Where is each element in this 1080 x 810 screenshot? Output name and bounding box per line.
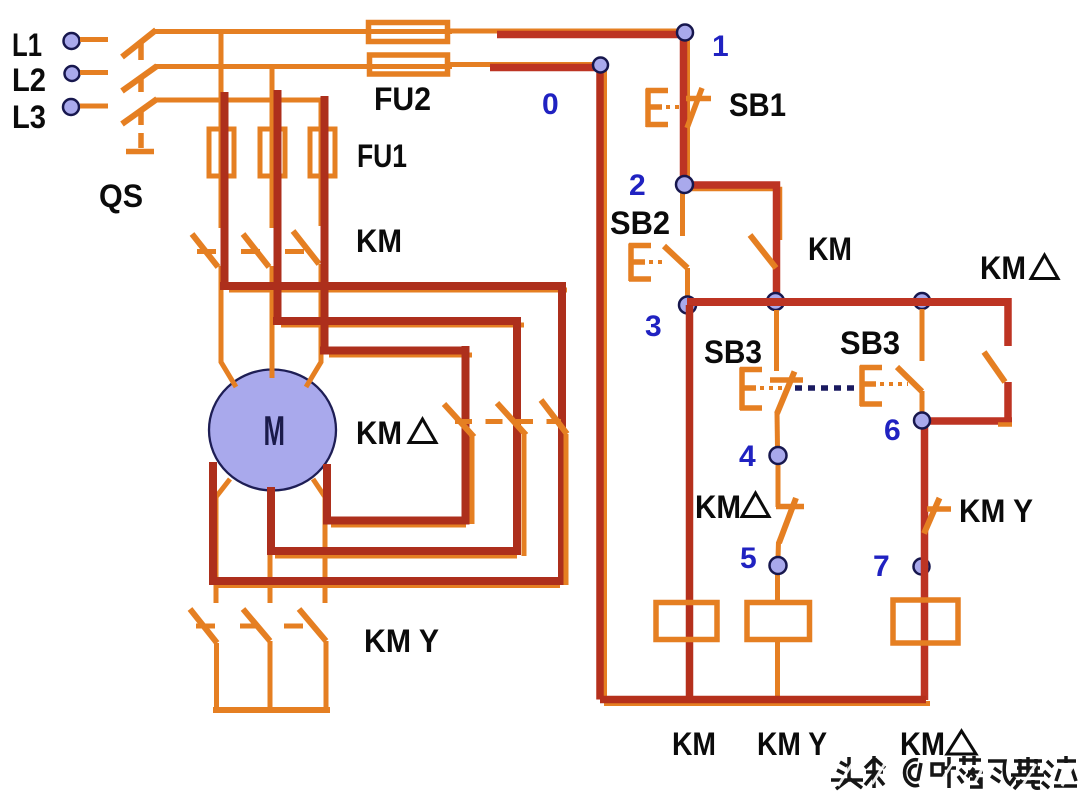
svg-text:1: 1: [712, 30, 729, 63]
contactor KM main dashed link: [197, 249, 318, 254]
fuse FU1 phase2: [260, 129, 285, 176]
svg-text:SB2: SB2: [610, 205, 670, 241]
wire bus 302 dark red: [687, 298, 1008, 306]
svg-text:2: 2: [629, 169, 646, 202]
svg-text:FU2: FU2: [374, 81, 431, 117]
wire KM coil drop dark red: [686, 305, 694, 700]
contactor KM-delta blade 2: [497, 403, 526, 435]
node 1: [677, 25, 693, 41]
fuse FU1 phase3: [310, 129, 335, 176]
node SB3 right junction: [914, 293, 930, 309]
coil KM-delta box: [893, 600, 958, 643]
node 7: [914, 559, 930, 575]
button SB3 left blade: [777, 372, 795, 414]
wire bottom bus dark red: [600, 696, 926, 704]
button SB3 right dots: [880, 382, 908, 386]
contactor KM-delta blade 3: [541, 400, 567, 434]
wire motor bottom 2 orange: [268, 492, 273, 711]
svg-text:6: 6: [884, 414, 901, 447]
coil KM-Y box: [747, 603, 810, 640]
watermark toutiao: [831, 756, 1077, 789]
delta highlight path phase3 dark red: [320, 96, 470, 525]
contactor KM-Y NC bar: [927, 506, 951, 512]
wire phase1 drop: [221, 32, 236, 388]
wire KM-Y coil stub: [775, 573, 780, 600]
wire phase1 horizontal: [154, 31, 688, 185]
wire node2 branch orange under: [687, 189, 780, 240]
svg-text:KM: KM: [808, 231, 852, 267]
button SB3 left stub: [774, 310, 779, 371]
wire phase3 horizontal: [155, 98, 324, 103]
svg-text:SB3: SB3: [840, 325, 900, 361]
svg-text:L3: L3: [12, 99, 46, 135]
svg-text:KM Y: KM Y: [364, 623, 439, 659]
switch QS blade 3: [122, 99, 157, 124]
contactor KM main blade 1: [192, 234, 218, 267]
svg-text:5: 5: [740, 542, 757, 575]
wire node1 to node2 dark red: [680, 34, 688, 184]
node 2: [676, 176, 693, 193]
node 4: [770, 447, 787, 464]
svg-text:L1: L1: [12, 27, 42, 63]
contactor KM-Y blade 1: [190, 609, 217, 643]
svg-text:KM: KM: [900, 726, 945, 762]
svg-text:KM Y: KM Y: [757, 726, 827, 762]
wire jog corner orange sliver: [998, 422, 1012, 427]
svg-text:M: M: [264, 407, 286, 454]
svg-text:KM: KM: [356, 415, 402, 451]
node L1 terminal: [64, 33, 80, 49]
button SB2 dots: [649, 260, 666, 264]
wire motor bottom 3 orange: [313, 479, 326, 711]
node 0: [593, 58, 608, 73]
wire KM-delta NO jog dark red: [922, 298, 1012, 421]
node L2 terminal: [65, 66, 80, 81]
wire motor bottom 1 orange: [216, 479, 230, 711]
node 6: [914, 413, 930, 429]
wire node6 drop dark red: [921, 420, 929, 700]
wire L1 stub: [80, 37, 108, 42]
wire SB2 upper stub: [680, 190, 685, 236]
button SB1 dots: [666, 105, 683, 109]
button SB3 right stub: [920, 309, 925, 361]
node KM junction: [767, 293, 784, 310]
svg-text:KM: KM: [980, 250, 1026, 286]
wire SB3 right lower stub: [920, 391, 925, 414]
switch QS handle bar: [126, 149, 154, 155]
wire phase2 drop: [270, 67, 275, 379]
wire L2 stub: [80, 70, 108, 75]
wire control feed1 dark red overlay: [497, 31, 684, 39]
contactor KM-delta NC bar: [776, 504, 804, 510]
svg-text:SB3: SB3: [704, 334, 762, 370]
svg-text:QS: QS: [99, 178, 143, 214]
wire L3 stub: [80, 104, 108, 109]
wire node5 stub upper: [776, 542, 782, 558]
delta highlight path phase2 dark red: [271, 90, 521, 555]
svg-text:3: 3: [645, 310, 662, 343]
wire SB2 lower stub: [685, 268, 690, 300]
svg-text:KM Y: KM Y: [959, 493, 1033, 529]
contactor KM-delta NC blade: [779, 498, 796, 543]
contactor KM-Y blade 3: [299, 609, 326, 641]
svg-text:KM: KM: [672, 726, 716, 762]
wire node4 stub: [776, 463, 781, 507]
wire control feed0 dark red overlay: [490, 64, 601, 72]
wire KM-delta lower stubs orange: [472, 434, 566, 585]
wire node2 branch dark red: [684, 185, 777, 301]
wire SB3 left lower stub: [775, 412, 781, 448]
contactor KM-delta dashed link: [455, 419, 561, 424]
svg-text:KM: KM: [356, 223, 402, 259]
wire 0 drop orange: [602, 65, 607, 704]
wire KM-Y coil lower stub: [775, 642, 780, 703]
link SB3 navy dotted: [795, 385, 858, 391]
watermark white streaks: [838, 762, 1074, 786]
switch QS linkage dashed: [138, 42, 144, 148]
svg-text:0: 0: [542, 88, 559, 121]
wire phase3 drop: [306, 100, 321, 387]
contactor KM aux blade: [750, 235, 776, 268]
svg-text:4: 4: [739, 440, 756, 473]
contactor KM-Y NC blade: [924, 498, 940, 534]
button SB2 actuator E: [629, 244, 651, 282]
button SB2 blade: [664, 246, 688, 268]
button SB3 right actuator E: [860, 366, 882, 407]
button SB1 blade: [687, 88, 702, 128]
node 3: [679, 297, 696, 314]
motor M circle: [209, 370, 336, 491]
button SB1 seat bar: [686, 96, 711, 102]
svg-text:FU1: FU1: [357, 138, 407, 174]
button SB3 left dots: [760, 386, 790, 390]
contactor KM-delta NO blade: [984, 352, 1005, 382]
button SB3 left seat bar: [770, 377, 803, 383]
wire bottom bus orange: [604, 701, 930, 706]
switch QS blade 2: [122, 66, 157, 91]
contactor KM main blade 3: [293, 231, 319, 264]
svg-text:KM: KM: [695, 489, 741, 525]
delta highlight path phase1 dark red: [213, 92, 566, 585]
wire delta loop orange under-lines: [218, 290, 567, 586]
svg-text:7: 7: [873, 550, 890, 583]
wire 0 drop dark red: [596, 68, 604, 700]
contactor KM-Y blade 2: [243, 609, 270, 641]
node 5: [770, 557, 787, 574]
contactor KM-delta blade 1: [444, 404, 474, 437]
svg-text:SB1: SB1: [729, 87, 786, 123]
contactor KM main blade 2: [243, 234, 269, 267]
coil KM box: [656, 603, 717, 640]
switch QS blade 1: [122, 30, 156, 57]
button SB1 actuator E: [646, 89, 668, 128]
node L3 terminal: [63, 99, 79, 115]
contactor KM-Y dashed link: [196, 624, 322, 629]
svg-text:L2: L2: [12, 62, 46, 98]
button SB3 right blade: [897, 367, 922, 392]
fuse FU2 phase1: [369, 23, 448, 42]
fuse FU2 phase2: [370, 55, 448, 74]
wire phase2 horizontal: [155, 65, 605, 67]
button SB3 left actuator E: [740, 368, 762, 411]
fuse FU1 phase1: [209, 129, 234, 176]
wire star point bar: [213, 707, 330, 713]
